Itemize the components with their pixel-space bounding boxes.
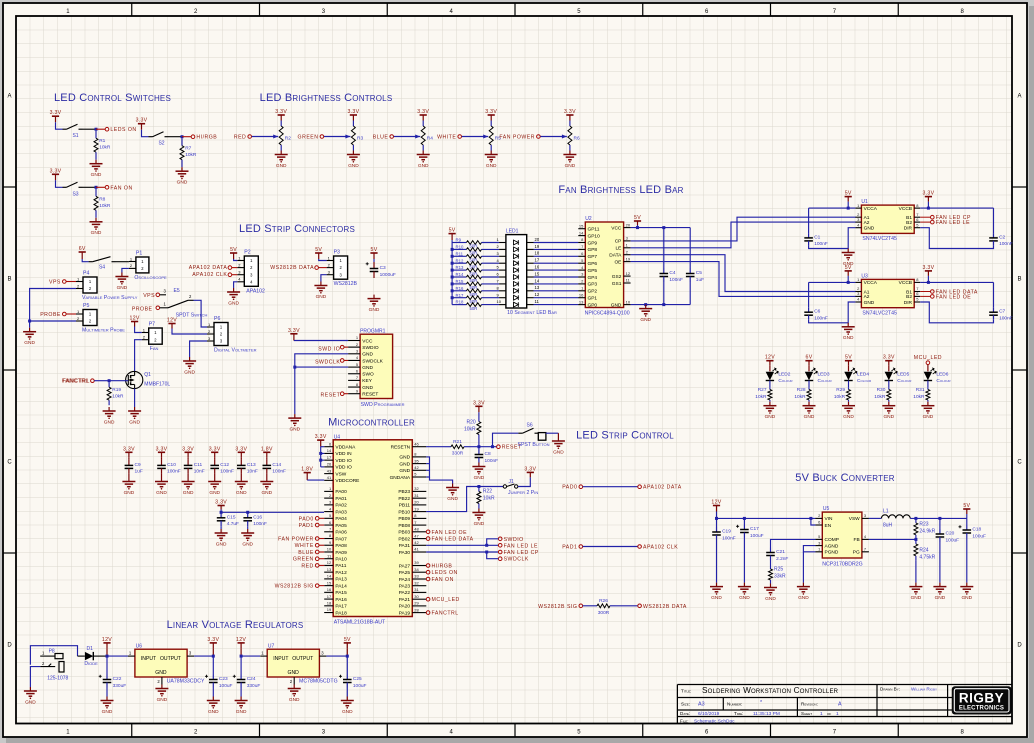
pin LE U2 [624, 247, 631, 249]
svg-text:GND: GND [447, 496, 458, 502]
svg-text:VSW: VSW [335, 471, 346, 477]
pin GP6 U2 [578, 262, 585, 264]
pin GP0 U2 [578, 304, 585, 306]
svg-text:C2: C2 [999, 234, 1005, 240]
svg-text:GND: GND [399, 461, 410, 467]
svg-text:File:: File: [680, 718, 689, 723]
svg-text:4.75kR: 4.75kR [919, 554, 935, 560]
svg-text:S1: S1 [72, 133, 78, 139]
port WHITE [458, 135, 462, 139]
svg-text:LED1: LED1 [506, 229, 519, 235]
svg-text:FAN LED DATA: FAN LED DATA [432, 537, 474, 543]
svg-text:30: 30 [414, 594, 419, 599]
svg-text:5V: 5V [845, 355, 852, 361]
wire VCC net U2 [631, 225, 638, 228]
wire LED1 pin 13 to U2 [527, 290, 534, 292]
svg-text:U5: U5 [823, 506, 830, 512]
pin 20 PB11 U4 [412, 504, 426, 506]
svg-text:GND: GND [961, 595, 972, 601]
port FAN ON [96, 186, 105, 188]
capacitor C5 1uF [689, 228, 691, 268]
svg-text:1: 1 [820, 711, 823, 717]
ground C9 [128, 478, 130, 482]
svg-text:GND: GND [348, 163, 359, 169]
svg-text:P8: P8 [49, 648, 55, 654]
svg-text:B: B [7, 277, 11, 283]
svg-text:R8: R8 [99, 196, 105, 202]
pin 39 PA27 U4 [412, 565, 426, 567]
port FAN LED LE [931, 220, 935, 224]
svg-text:PA19: PA19 [399, 610, 411, 616]
svg-text:P3: P3 [334, 250, 340, 256]
led LED5 [885, 372, 893, 381]
port RESET [497, 445, 501, 449]
svg-text:10nF: 10nF [194, 469, 205, 475]
ground R2 [280, 151, 282, 155]
pin B2 U3 [914, 295, 920, 297]
svg-text:PA24: PA24 [399, 577, 411, 583]
svg-text:U6: U6 [136, 643, 143, 649]
pin PA04 U4 [324, 517, 333, 519]
svg-text:WS2812B DATA: WS2812B DATA [270, 265, 314, 271]
pin 31 PA22 U4 [412, 591, 426, 593]
pin GS1 U2 [624, 282, 631, 284]
svg-text:APA102 DATA: APA102 DATA [189, 265, 228, 271]
svg-text:16: 16 [327, 587, 332, 592]
svg-text:3.3V: 3.3V [485, 109, 497, 115]
potentiometer R3 [352, 121, 354, 127]
svg-text:Colour: Colour [897, 378, 912, 384]
wire 3.3V to VCC [294, 340, 348, 342]
svg-text:13: 13 [327, 567, 332, 572]
capacitor C9 1uF [128, 457, 130, 460]
ground C19 [716, 583, 718, 587]
svg-text:APA102 CLK: APA102 CLK [643, 545, 678, 551]
svg-text:C6: C6 [814, 309, 820, 315]
svg-text:GND: GND [911, 595, 922, 601]
svg-text:R6: R6 [574, 136, 580, 142]
svg-text:VCCA: VCCA [864, 280, 878, 286]
svg-text:Variable Power Supply: Variable Power Supply [82, 295, 138, 301]
svg-text:FAN ON: FAN ON [110, 185, 132, 191]
svg-text:C20: C20 [946, 531, 955, 537]
svg-text:32: 32 [414, 486, 419, 491]
svg-text:12V: 12V [236, 637, 246, 643]
pin 32 PA23 U4 [412, 585, 426, 587]
svg-text:APA102 DATA: APA102 DATA [643, 485, 682, 491]
pin CP U2 [624, 240, 631, 242]
power 5V buck output [963, 508, 970, 510]
svg-text:PA31: PA31 [399, 543, 411, 549]
pin A2 U3 [855, 295, 861, 297]
svg-text:5V: 5V [963, 503, 970, 509]
svg-text:GND: GND [843, 414, 854, 420]
pin 42 GND U4 [412, 469, 426, 471]
resistor R12 50R [451, 262, 454, 265]
svg-text:3.3V: 3.3V [524, 466, 536, 472]
svg-text:Number:: Number: [727, 702, 742, 707]
svg-text:GND: GND [91, 172, 102, 178]
svg-text:100nF: 100nF [669, 277, 683, 283]
svg-text:Fan: Fan [150, 346, 159, 352]
ground U1 [847, 249, 849, 253]
svg-text:C: C [7, 460, 12, 466]
resistor R7 [181, 138, 183, 146]
resistor R11 50R [451, 255, 454, 258]
svg-text:S2: S2 [158, 141, 164, 147]
svg-text:PA17: PA17 [335, 604, 347, 610]
svg-text:Microcontroller: Microcontroller [328, 417, 415, 429]
svg-text:VDDCORE: VDDCORE [335, 478, 359, 484]
svg-text:28: 28 [414, 607, 419, 612]
svg-text:PROBE: PROBE [40, 312, 61, 318]
svg-text:GND: GND [156, 490, 167, 496]
svg-text:VCCB: VCCB [899, 206, 912, 212]
svg-text:13: 13 [535, 285, 540, 290]
port FAN LED CP right [498, 550, 502, 554]
svg-text:3.3V: 3.3V [136, 118, 148, 124]
svg-text:1uF: 1uF [135, 469, 143, 475]
power 12V D1 [103, 642, 110, 644]
led bar LED1 [506, 235, 527, 308]
pin GND U1 [855, 227, 861, 229]
svg-text:3.3V: 3.3V [207, 637, 219, 643]
svg-text:LED4: LED4 [857, 372, 869, 378]
svg-text:GND: GND [129, 419, 140, 425]
pin GP9 U2 [578, 242, 585, 244]
wire P7 pin2 to Q1 drain [135, 340, 142, 372]
capacitor C22 330uF [106, 656, 108, 674]
wire BLUE [394, 136, 421, 138]
wire FAN POWER [540, 136, 567, 138]
svg-text:C24: C24 [247, 676, 256, 682]
svg-text:RESET: RESET [362, 392, 378, 398]
svg-text:Colour: Colour [857, 378, 872, 384]
svg-text:16: 16 [535, 265, 540, 270]
wire WHITE [462, 136, 489, 138]
svg-text:VCC: VCC [362, 338, 373, 344]
ground C17 [743, 583, 745, 587]
svg-text:RED: RED [301, 563, 313, 569]
svg-text:SWD IO: SWD IO [318, 347, 340, 353]
connector P2 APA102 [244, 256, 258, 286]
svg-text:3.3V: 3.3V [417, 109, 429, 115]
wire 12V to P7 pin1 [135, 327, 142, 333]
svg-text:RESET: RESET [321, 392, 341, 398]
resistor R23 24.9kR [915, 518, 917, 523]
potentiometer R6 [569, 121, 571, 127]
svg-text:48: 48 [414, 527, 419, 532]
svg-text:VCC: VCC [611, 225, 622, 231]
svg-text:B: B [1017, 277, 1021, 283]
svg-text:C5: C5 [696, 270, 702, 276]
port WS2812B SIG strip [579, 604, 583, 608]
svg-text:GS1: GS1 [612, 281, 622, 287]
pin 32 PB23 U4 [412, 490, 426, 492]
svg-text:CP: CP [615, 239, 622, 245]
svg-text:GND: GND [486, 163, 497, 169]
wire AGND PGND to ground [803, 546, 815, 552]
svg-text:LEDS ON: LEDS ON [432, 570, 458, 576]
svg-text:14: 14 [579, 230, 584, 235]
wire 3.3V to VDD pins [320, 447, 322, 467]
resistor R14 50R [451, 276, 454, 279]
pin A2 U1 [855, 221, 861, 223]
svg-text:P4: P4 [83, 271, 89, 277]
svg-text:R12: R12 [456, 258, 464, 263]
svg-text:100nF: 100nF [999, 241, 1013, 247]
svg-text:34: 34 [414, 567, 419, 572]
ruler column ticks and numbers [131, 4, 133, 17]
svg-text:LED Strip Control: LED Strip Control [576, 430, 674, 442]
ground R3 [352, 151, 354, 155]
pin GP5 U2 [578, 269, 585, 271]
power 5V U1 [845, 196, 852, 198]
svg-text:GREEN: GREEN [293, 557, 314, 563]
wire LED1 pin 11 to U2 [527, 304, 534, 306]
ic U1 SN74LVC2T45 [861, 205, 914, 233]
svg-text:10kR: 10kR [874, 394, 886, 400]
ground left bus [29, 328, 31, 332]
ic PROGMR1 SWD programmer [360, 334, 393, 398]
port SWDCLK right [498, 557, 502, 561]
svg-text:WHITE: WHITE [295, 543, 314, 549]
svg-text:100nF: 100nF [722, 535, 736, 541]
svg-text:1: 1 [836, 711, 839, 717]
svg-text:Sheet: Sheet [801, 711, 812, 716]
svg-text:U3: U3 [861, 273, 868, 279]
ground C22 [106, 688, 108, 697]
svg-text:WHITE: WHITE [437, 135, 456, 141]
capacitor C24 330uF [240, 656, 242, 674]
svg-text:GND: GND [157, 697, 168, 703]
svg-text:PA05: PA05 [335, 523, 347, 529]
capacitor C20 100uF [939, 518, 941, 529]
svg-text:C10: C10 [167, 462, 176, 468]
svg-text:VDDANA: VDDANA [335, 445, 356, 451]
svg-text:10nF: 10nF [247, 469, 258, 475]
svg-text:3.3V: 3.3V [209, 446, 221, 452]
svg-text:P7: P7 [149, 322, 155, 328]
ground R4 [422, 151, 424, 155]
svg-text:5V: 5V [845, 191, 852, 197]
pin PA07 U4 [324, 538, 333, 540]
pin COMP U5 [815, 538, 822, 540]
svg-text:J1: J1 [509, 479, 515, 485]
pin GP4 U2 [578, 276, 585, 278]
svg-text:VSW: VSW [849, 516, 860, 522]
pin 5 GND PROGMR1 [348, 366, 360, 368]
svg-text:GND: GND [864, 226, 875, 232]
ground Q1 [134, 389, 136, 407]
svg-text:GND: GND [183, 490, 194, 496]
svg-text:5V: 5V [449, 228, 456, 234]
pin B2 U1 [914, 221, 920, 223]
ground S3 [95, 218, 97, 222]
svg-text:PAD1: PAD1 [299, 523, 314, 529]
svg-text:PA23: PA23 [399, 584, 411, 590]
power 6V S4 [79, 251, 86, 253]
svg-text:19: 19 [535, 244, 540, 249]
wire LED1 pin 19 to U2 [527, 248, 534, 250]
svg-text:A2: A2 [864, 220, 870, 226]
pin 31 PB22 U4 [412, 497, 426, 499]
resistor R24 4.75kR [915, 539, 917, 544]
svg-text:5V: 5V [344, 637, 351, 643]
resistor R26 300R [583, 605, 592, 607]
svg-text:12V: 12V [765, 355, 775, 361]
svg-text:10: 10 [497, 299, 502, 304]
svg-text:Revision:: Revision: [801, 702, 818, 707]
ground P8 [29, 687, 31, 691]
resistor R1 [95, 131, 97, 139]
svg-text:Colour: Colour [818, 378, 833, 384]
svg-text:GP5: GP5 [588, 268, 598, 274]
capacitor C15 4.7uF [220, 512, 222, 518]
svg-text:3.3V: 3.3V [215, 500, 227, 506]
svg-text:100nF: 100nF [814, 241, 828, 247]
svg-text:RESETN: RESETN [391, 445, 411, 451]
svg-text:1.8V: 1.8V [261, 446, 273, 452]
resistor R21 330R [445, 446, 452, 448]
svg-text:10kR: 10kR [99, 145, 111, 151]
svg-text:3.3V: 3.3V [883, 355, 895, 361]
svg-text:1.8V: 1.8V [301, 467, 313, 473]
pin GP3 U2 [578, 283, 585, 285]
capacitor C1 100nF [809, 207, 849, 209]
pin DIR U1 [914, 227, 920, 229]
capacitor C7 100nF [928, 281, 993, 283]
svg-text:PROBE: PROBE [132, 306, 153, 312]
svg-text:330uF: 330uF [247, 683, 261, 689]
capacitor C10 100nF [161, 457, 163, 460]
svg-text:GND: GND [124, 490, 135, 496]
wire SWD GND pins to ground [295, 354, 348, 414]
wire P2 pin4 to ground [234, 282, 238, 288]
svg-text:PB09: PB09 [398, 516, 410, 522]
capacitor C21 2.2nF [770, 548, 772, 553]
pin FB U5 [862, 538, 869, 540]
svg-text:1uF: 1uF [696, 277, 704, 283]
svg-text:VPS: VPS [143, 293, 155, 299]
power 1.8V U4 [304, 472, 311, 474]
transistor Q1 MMBF170L [126, 371, 143, 388]
svg-text:10 Segment LED Bar: 10 Segment LED Bar [507, 310, 557, 316]
svg-text:C17: C17 [750, 526, 759, 532]
wire LED1 pin 14 to U2 [527, 283, 534, 285]
capacitor C14 100nF [266, 457, 268, 460]
svg-text:50R: 50R [470, 306, 478, 311]
pin VCC U2 [624, 227, 631, 229]
port FAN LED CP [931, 215, 935, 219]
wire to junction S1 [83, 128, 97, 130]
svg-text:VDD IO: VDD IO [335, 465, 352, 471]
capacitor C16 100nF [247, 512, 249, 518]
svg-text:GND: GND [362, 385, 373, 391]
svg-text:Digital Voltmeter: Digital Voltmeter [214, 348, 257, 354]
ground R22 [478, 509, 480, 513]
resistor R9 50R [452, 242, 466, 244]
pin A1 U1 [855, 216, 861, 218]
resistor R20 10kR [478, 412, 480, 416]
wire GREEN [324, 136, 351, 138]
svg-text:P1: P1 [136, 251, 142, 257]
pin GS2 U2 [624, 275, 631, 277]
right ports of U4 [426, 530, 430, 534]
power 5V U3 [845, 270, 852, 272]
svg-text:D: D [1017, 643, 1022, 649]
svg-text:GND: GND [804, 414, 815, 420]
power 5V C3 [370, 252, 377, 254]
svg-text:12V: 12V [167, 318, 177, 324]
wire S1 [56, 122, 63, 129]
svg-text:GP1: GP1 [588, 296, 598, 302]
inductor L1 8uH [881, 515, 910, 519]
pin PA05 U4 [324, 524, 333, 526]
svg-text:GP4: GP4 [588, 275, 598, 281]
svg-text:R27: R27 [758, 387, 767, 393]
ground U2 [645, 305, 647, 309]
port HI/RGB [182, 136, 191, 138]
potentiometer R2 [280, 121, 282, 127]
svg-text:33: 33 [414, 574, 419, 579]
pin 7 PB08 U4 [412, 524, 426, 526]
svg-text:17: 17 [327, 594, 332, 599]
ground U3 [847, 323, 849, 327]
svg-text:GND: GND [474, 475, 485, 481]
pin VSW U5 [862, 517, 869, 519]
port FAN LED DATA [931, 290, 935, 294]
svg-text:PA06: PA06 [335, 530, 347, 536]
power 3.3V LED5 [885, 360, 892, 362]
svg-text:PA04: PA04 [335, 516, 347, 522]
svg-text:Diode: Diode [84, 661, 98, 667]
svg-text:330R: 330R [452, 451, 464, 457]
svg-text:UA78M33CDCY: UA78M33CDCY [167, 679, 205, 685]
ground LED2 [769, 402, 771, 406]
ic U3 SN74LVC2T45 [861, 279, 914, 307]
pin 8 PB09 U4 [412, 517, 426, 519]
power 3.3V C11 [185, 451, 192, 453]
svg-text:41: 41 [414, 547, 419, 552]
led LED3 [805, 372, 813, 381]
svg-text:MC78M05CDTG: MC78M05CDTG [299, 679, 338, 685]
svg-text:C18: C18 [972, 527, 981, 533]
capacitor C11 10nF [187, 457, 189, 460]
wire PA30 to FAN LED CP [426, 551, 498, 553]
svg-text:3.3V: 3.3V [315, 434, 327, 440]
wire P8 sleeve to ground [30, 667, 40, 687]
svg-text:GS2: GS2 [612, 274, 622, 280]
svg-text:PA07: PA07 [335, 536, 347, 542]
power 5V P2 [230, 252, 237, 254]
ruler row ticks and letters [4, 186, 17, 188]
svg-text:DIR: DIR [904, 300, 913, 306]
svg-text:C19: C19 [722, 529, 731, 535]
svg-text:100nF: 100nF [485, 458, 499, 464]
svg-text:39: 39 [414, 560, 419, 565]
svg-text:C14: C14 [272, 462, 281, 468]
pin B1 U3 [914, 291, 920, 293]
svg-text:GND: GND [236, 709, 247, 715]
pin 33 PA24 U4 [412, 578, 426, 580]
pin GP10 U2 [578, 235, 585, 237]
power 3.3V U1 [925, 196, 932, 198]
svg-text:Date:: Date: [680, 711, 690, 716]
svg-text:5V: 5V [315, 247, 322, 253]
resistor R17 50R [451, 296, 454, 299]
pin 30 PA21 U4 [412, 598, 426, 600]
